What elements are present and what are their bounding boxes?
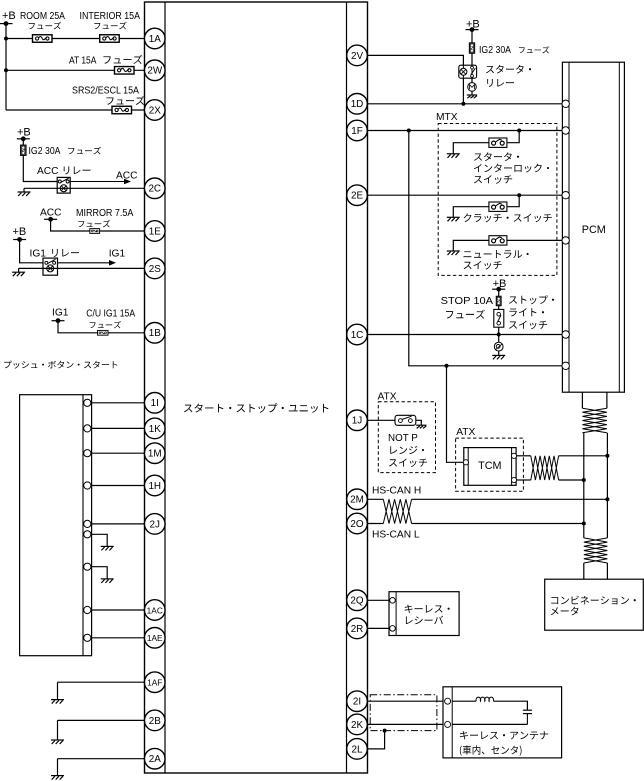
power +B IG1	[13, 226, 27, 238]
label MTX	[436, 112, 458, 123]
fuse C/U IG1 15A	[98, 330, 109, 335]
node junction CAN-H TCM	[605, 454, 609, 458]
node junction 2W	[4, 68, 8, 72]
wire 1F to PCM	[368, 130, 566, 132]
terminal 2L	[347, 739, 368, 760]
svg-text:IG1: IG1	[30, 249, 47, 260]
wire row 2W	[6, 69, 145, 71]
terminal 1H	[144, 475, 165, 496]
terminal 2S	[144, 258, 165, 279]
wire trunk to meter	[584, 563, 608, 579]
svg-text:1H: 1H	[148, 481, 161, 492]
svg-text:HS-CAN L: HS-CAN L	[372, 530, 420, 541]
fuse SRS2/ESCL 15A	[112, 106, 132, 114]
combination meter box	[545, 579, 644, 630]
pin push-button	[84, 425, 91, 432]
TCM box	[464, 448, 516, 486]
fuse ROOM 25A	[33, 35, 53, 43]
wire push-button to unit	[92, 485, 145, 487]
terminal 2Q	[347, 590, 368, 611]
label push-button start	[4, 361, 117, 369]
lamp stop light	[494, 342, 503, 351]
pin PCM	[562, 362, 569, 369]
pin PCM	[562, 127, 569, 134]
switch stop light	[494, 309, 504, 327]
pin TCM right 2	[511, 477, 516, 482]
label MIRROR 7.5A fuse	[76, 208, 134, 227]
pin PCM	[562, 100, 569, 107]
svg-text:NOT P: NOT P	[388, 433, 418, 444]
ground IG1 relay	[12, 272, 25, 276]
svg-text:1A: 1A	[149, 34, 161, 45]
wire 1C to PCM	[368, 334, 566, 336]
svg-text:2Q: 2Q	[350, 596, 363, 607]
svg-text:MTX: MTX	[436, 112, 458, 123]
node junction stop 1C	[497, 333, 501, 337]
wire starter motor ground drop	[471, 91, 473, 95]
pin PCM	[562, 331, 569, 338]
svg-text:IG1: IG1	[52, 308, 69, 319]
fuse AT 15A	[115, 67, 135, 75]
wire IG1 coil ground drop	[18, 268, 20, 272]
label ATX TCM	[456, 427, 475, 438]
terminal 2I	[347, 691, 368, 712]
node junction CAN-L TCM	[582, 478, 586, 482]
fuse IG2 30A vertical	[21, 145, 27, 156]
label ROOM 25A fuse	[20, 11, 65, 29]
wire antenna bottom	[452, 723, 527, 725]
svg-text:ROOM 25A: ROOM 25A	[20, 11, 65, 22]
MTX dashed box	[438, 124, 557, 276]
wire stop lamp ground drop	[498, 351, 500, 355]
wire push-button ground 1	[92, 534, 108, 546]
wire push-button to unit	[92, 452, 145, 454]
wire IG1 feed	[20, 240, 43, 263]
relay IG1 K2	[43, 258, 58, 275]
svg-text:ATX: ATX	[456, 427, 475, 438]
label ATX	[378, 392, 397, 403]
wire 2Q to receiver	[368, 599, 390, 601]
svg-text:2V: 2V	[351, 51, 363, 62]
svg-text:SRS2/ESCL 15A: SRS2/ESCL 15A	[72, 86, 139, 97]
wire inductor to capacitor	[493, 701, 527, 710]
label neutral switch	[464, 250, 529, 269]
wire IG1 switch output arrow	[58, 260, 117, 266]
svg-text:2C: 2C	[148, 184, 161, 195]
wire 2I to antenna	[368, 700, 448, 702]
switch neutral	[489, 236, 507, 245]
terminal 2V	[347, 45, 368, 66]
terminal 1M	[144, 443, 165, 464]
terminal 1E	[144, 221, 165, 242]
svg-text:1B: 1B	[149, 328, 161, 339]
label HS-CAN H	[372, 486, 421, 497]
shield dash-dot box	[370, 695, 437, 731]
svg-text:+B: +B	[2, 10, 16, 22]
svg-text:INTERIOR 15A: INTERIOR 15A	[80, 11, 141, 22]
pin receiver 1	[390, 598, 396, 604]
svg-text:TCM: TCM	[478, 460, 501, 472]
terminal 1AF	[144, 672, 165, 693]
pin PCM	[562, 237, 569, 244]
label IG1 relay	[30, 249, 79, 260]
terminal 2E	[347, 185, 368, 206]
wire TCM CAN-L	[516, 479, 531, 481]
terminal 2J	[144, 514, 165, 535]
label AT 15A fuse	[69, 55, 142, 67]
label stop light switch	[509, 295, 554, 329]
wire push-button to unit	[92, 523, 145, 525]
label ACC relay	[37, 166, 90, 177]
wire 2M HS-CAN H	[368, 498, 608, 500]
terminal 2X	[144, 100, 165, 121]
svg-text:2E: 2E	[351, 191, 363, 202]
svg-text:2S: 2S	[149, 264, 161, 275]
capacitor antenna C1	[523, 710, 532, 724]
svg-text:STOP 10A: STOP 10A	[441, 296, 494, 307]
fuse IG2 30A starter	[469, 43, 474, 54]
wire CAN-L trunk	[583, 433, 585, 538]
pin push-button	[84, 563, 91, 570]
node ACC tap	[44, 217, 57, 222]
label IG1 net arrow	[109, 249, 126, 260]
wire branch to TCM	[447, 366, 464, 463]
svg-text:1AF: 1AF	[147, 678, 162, 688]
power +B IG2	[17, 127, 31, 139]
wire push-button to unit	[92, 427, 145, 429]
ground ACC relay	[18, 192, 31, 196]
terminal 2W	[144, 60, 165, 81]
svg-text:2A: 2A	[149, 754, 161, 765]
terminal 1AE	[144, 628, 165, 649]
label PCM	[582, 224, 606, 236]
node junction CAN-H 2M	[605, 497, 609, 501]
wire NOT P switch to ground	[412, 420, 421, 425]
label C/U IG1 15A fuse	[86, 309, 135, 329]
label start-stop unit	[184, 403, 328, 413]
wire CAN-H trunk	[606, 433, 608, 538]
terminal 2K	[347, 714, 368, 735]
node junction 1D starter	[461, 102, 465, 106]
terminal 1K	[144, 418, 165, 439]
label SRS2/ESCL 15A fuse	[72, 86, 145, 105]
wire push-button to unit	[92, 609, 145, 611]
svg-text:ACC: ACC	[40, 208, 62, 219]
ground push-button 2	[101, 579, 114, 583]
svg-text:1M: 1M	[148, 449, 162, 460]
label combination meter	[551, 596, 636, 615]
svg-text:1D: 1D	[351, 99, 364, 110]
terminal 2B	[144, 710, 165, 731]
wire TCM CAN-L to trunk	[559, 479, 584, 481]
svg-text:ACC: ACC	[37, 166, 59, 177]
ground starter interlock switch	[447, 154, 460, 158]
wire row 2X	[6, 109, 145, 111]
switch starter interlock	[489, 138, 507, 147]
label IG2 30A fuse	[29, 146, 102, 157]
twisted pair trunk upper	[582, 408, 607, 433]
wire 2E to PCM	[368, 194, 566, 196]
ground unit	[51, 776, 64, 780]
wire PCM CAN connector	[582, 392, 607, 408]
pin push-button	[84, 450, 91, 457]
terminal 1F	[347, 120, 368, 141]
svg-text:2L: 2L	[352, 744, 363, 755]
wire 1J to NOT P switch	[368, 419, 401, 421]
ground unit	[51, 740, 64, 744]
pin antenna 1	[445, 698, 451, 704]
terminal 2A	[144, 748, 165, 769]
node junction 1F branch	[407, 129, 411, 133]
label ACC tap	[40, 208, 62, 219]
node junction TCM branch	[445, 364, 449, 368]
pin TCM right 1	[511, 453, 516, 458]
svg-text:2I: 2I	[353, 697, 361, 708]
pin push-button	[84, 520, 91, 527]
svg-text:2O: 2O	[350, 519, 363, 530]
fuse MIRROR 7.5A	[90, 229, 100, 234]
ground clutch switch	[447, 217, 460, 221]
wire +B bus	[5, 24, 7, 110]
ATX dashed box TCM	[456, 438, 524, 491]
wire clutch switch right	[507, 195, 519, 207]
label INTERIOR 15A fuse	[80, 11, 141, 29]
node IG1 tap	[52, 318, 65, 323]
terminal 1I	[144, 393, 165, 414]
wire neutral switch right to PCM	[507, 239, 566, 241]
svg-text:1C: 1C	[351, 330, 364, 341]
wire 1D to PCM	[368, 103, 566, 105]
terminal 1D	[347, 94, 368, 115]
keyless receiver box	[389, 592, 459, 636]
wire push-button ground 2	[92, 567, 108, 579]
wire stop feed	[498, 289, 500, 309]
ground neutral switch	[447, 251, 460, 255]
inductor antenna coil L1	[476, 697, 494, 701]
wire TCM CAN-H	[516, 455, 531, 457]
ground NOT P switch	[416, 425, 426, 428]
wire stop switch to lamp	[498, 327, 500, 342]
svg-text:AT 15A: AT 15A	[69, 56, 97, 67]
svg-text:1K: 1K	[149, 424, 161, 435]
wire 2R to receiver	[368, 627, 390, 629]
wire interlock switch right	[507, 131, 519, 143]
wire C/U IG1 row to 1B	[58, 321, 145, 333]
label keyless antenna	[460, 731, 548, 756]
pin TCM left	[463, 460, 468, 465]
node junction CAN-L 2O	[582, 522, 586, 526]
node junction shield 2L	[383, 729, 387, 733]
wire clutch switch left to ground	[453, 207, 489, 218]
relay ACC K1	[57, 177, 70, 193]
svg-text:IG1: IG1	[109, 249, 126, 260]
wire starter fuse feed	[471, 30, 473, 83]
wire ACC switch output arrow	[70, 179, 131, 185]
svg-text:1I: 1I	[151, 398, 159, 409]
label starter interlock switch	[474, 152, 549, 183]
wire TCM CAN-H to trunk	[559, 455, 608, 457]
wire neutral switch left to ground	[453, 240, 489, 251]
pin push-button	[84, 399, 91, 406]
svg-text:2M: 2M	[350, 495, 364, 506]
PCM box	[562, 62, 624, 392]
label keyless receiver	[405, 605, 450, 625]
pin push-button	[84, 634, 91, 641]
svg-text:2J: 2J	[150, 519, 160, 530]
terminal 2C	[144, 178, 165, 199]
svg-text:C/U IG1 15A: C/U IG1 15A	[86, 309, 135, 320]
svg-text:1J: 1J	[352, 416, 362, 427]
terminal 2M	[347, 489, 368, 510]
wire push-button to unit	[92, 637, 145, 639]
fuse INTERIOR 15A	[100, 35, 120, 43]
relay starter K3	[459, 65, 477, 78]
power +B starter	[466, 19, 480, 31]
node junction clutch	[517, 193, 521, 197]
push-button start switch box	[20, 395, 92, 656]
ground push-button 1	[101, 546, 114, 550]
svg-text:1AC: 1AC	[147, 605, 163, 615]
svg-text:2R: 2R	[351, 624, 364, 635]
twisted pair TCM	[531, 456, 559, 480]
svg-text:2B: 2B	[149, 716, 161, 727]
svg-text:2K: 2K	[351, 720, 363, 731]
terminal 2O	[347, 513, 368, 534]
terminal 1AC	[144, 600, 165, 621]
node junction interlock	[517, 129, 521, 133]
wire unit ground row	[58, 759, 145, 776]
wire unit ground row	[58, 720, 145, 740]
terminal 1J	[347, 410, 368, 431]
label IG1 tap	[52, 308, 69, 319]
ATX dashed box NOT P	[378, 402, 435, 473]
svg-text:MIRROR 7.5A: MIRROR 7.5A	[76, 208, 134, 219]
svg-text:2W: 2W	[147, 66, 162, 77]
label STOP 10A fuse	[441, 296, 494, 319]
ground unit	[51, 700, 64, 704]
label NOT P range switch	[388, 433, 427, 467]
ground starter motor	[467, 95, 477, 98]
svg-text:HS-CAN H: HS-CAN H	[372, 486, 421, 497]
label starter relay	[486, 65, 531, 87]
label clutch switch	[464, 213, 552, 222]
terminal 1C	[347, 324, 368, 345]
keyless antenna box	[443, 687, 562, 758]
wire ACC relay coil row to 2C	[24, 187, 145, 189]
wire 1F branch down to PCM row	[409, 131, 566, 366]
svg-text:ACC: ACC	[116, 171, 138, 182]
pin push-button	[84, 482, 91, 489]
node junction 1A	[4, 37, 8, 41]
svg-text:1F: 1F	[351, 126, 363, 137]
wire IG2 feed	[23, 139, 57, 182]
label TCM	[478, 460, 501, 472]
pin antenna 2	[445, 721, 451, 727]
wire push-button to unit	[92, 402, 145, 404]
label IG2 30A starter fuse	[479, 45, 549, 56]
wire ACC coil ground drop	[23, 188, 25, 192]
terminal 1B	[144, 323, 165, 344]
terminal 1A	[144, 28, 165, 49]
switch clutch	[489, 202, 507, 211]
svg-text:IG2 30A: IG2 30A	[29, 146, 61, 157]
wire IG1 coil row to 2S	[19, 267, 145, 269]
pin push-button	[84, 606, 91, 613]
svg-text:1AE: 1AE	[147, 633, 163, 643]
svg-text:2X: 2X	[149, 105, 161, 116]
pin receiver 2	[390, 626, 396, 632]
pin push-button	[84, 531, 91, 538]
power +B stop	[493, 278, 507, 290]
motor M starter	[468, 83, 477, 92]
svg-text:+B: +B	[13, 226, 27, 238]
twisted pair HS-CAN	[383, 499, 411, 523]
wire 2K to antenna	[368, 723, 448, 725]
fuse STOP 10A	[496, 296, 501, 306]
svg-text:1E: 1E	[149, 226, 161, 237]
wire MIRROR row to 1E	[51, 219, 145, 231]
switch NOT P range	[395, 415, 416, 425]
label ACC net arrow	[116, 171, 138, 182]
terminal 2R	[347, 618, 368, 639]
pin PCM	[562, 192, 569, 199]
power +B	[2, 10, 16, 22]
svg-text:ATX: ATX	[378, 392, 397, 403]
start-stop unit U1 box	[145, 2, 368, 773]
wire interlock switch left to ground	[453, 143, 489, 154]
ground stop lamp	[492, 355, 505, 359]
wire 2O HS-CAN L	[368, 523, 584, 525]
wire unit ground row	[58, 682, 145, 699]
svg-text:PCM: PCM	[582, 224, 606, 236]
wire 2V to starter relay coil	[368, 55, 464, 103]
svg-text:IG2 30A: IG2 30A	[479, 45, 511, 56]
twisted pair trunk lower	[584, 538, 608, 563]
label HS-CAN L	[372, 530, 420, 541]
wire row 1A	[6, 38, 145, 40]
wire antenna top	[452, 700, 476, 702]
wire 2L to shield	[368, 731, 385, 749]
